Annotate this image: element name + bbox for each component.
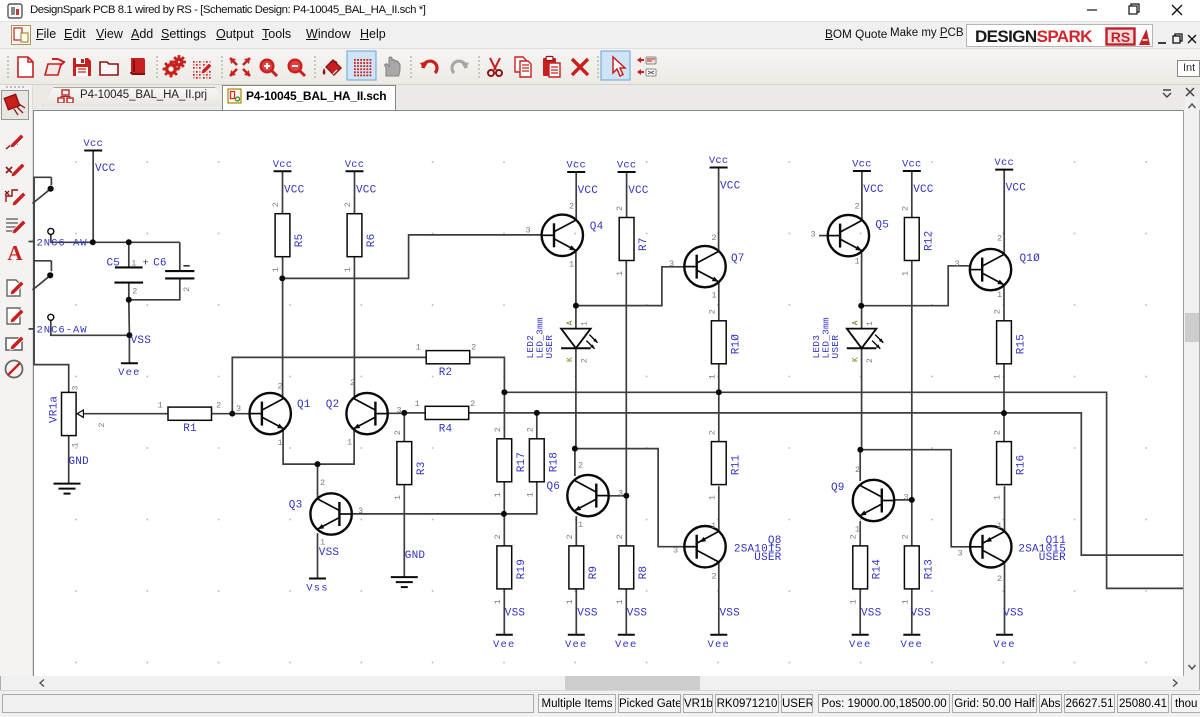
power Vee Q8: [710, 634, 727, 636]
node R15/R16: [1001, 410, 1007, 416]
transistor Q2: [346, 393, 387, 434]
wire LED3 node to Q9 collector: [859, 450, 861, 481]
wire Q7 emitter to R10: [718, 282, 720, 321]
node VSS input: [126, 332, 132, 338]
wire input bus: [50, 241, 180, 243]
power Vcc R5: [274, 170, 292, 172]
svg-text:A: A: [7, 241, 23, 265]
wire Q6 base: [608, 495, 626, 497]
MDI window buttons: [1155, 32, 1200, 46]
resistor R15: [997, 321, 1012, 364]
wire R6 bottom to Q2 collector: [353, 257, 355, 399]
node Q9 base: [909, 497, 915, 503]
node C5/C6 bottom: [126, 297, 132, 303]
wire R4 left: [404, 412, 425, 414]
wire LED2 cathode: [575, 348, 577, 448]
wire Q4 node to Q7 base: [576, 267, 685, 306]
wire R3 top: [403, 413, 405, 442]
wire R5 bottom to Q1 collector: [282, 257, 284, 399]
resistor R9: [569, 546, 584, 589]
transistor Q11 (2SA1015): [970, 526, 1011, 567]
wire input to VR1a: [34, 177, 69, 392]
wire R16 to Q11 emitter: [1004, 486, 1006, 531]
node Q6 base: [623, 493, 629, 499]
wire Q5 node to Q10 base: [862, 266, 972, 306]
node Q1 base: [229, 411, 235, 417]
wire edge stub J1: [29, 241, 35, 243]
wire to Vee symbol: [128, 335, 130, 363]
node LED2 cathode: [572, 446, 578, 452]
wire R8 to Vee: [625, 589, 627, 635]
power Vee R14: [852, 634, 869, 636]
wire R3 to GND: [403, 485, 405, 577]
resistor R6: [347, 214, 362, 257]
resistor R8: [619, 546, 634, 589]
bus A horizontal: [504, 392, 1183, 588]
bus B horizontal: [469, 413, 1183, 555]
wire VR1a wiper to R1: [83, 413, 168, 415]
horizontal scrollbar: [33, 676, 1184, 690]
wire R15 to R16: [1003, 364, 1005, 442]
svg-text:RS: RS: [1111, 29, 1130, 45]
resistor R3: [397, 442, 412, 485]
resistor R2: [426, 351, 470, 364]
wire Q2 base: [388, 412, 404, 414]
transistor Q9: [853, 480, 894, 521]
DesignSpark logo: [966, 24, 1153, 47]
node Q2 base/R3/R4: [401, 410, 407, 416]
wire R5 top: [282, 171, 284, 213]
power Vcc Q10: [995, 169, 1013, 171]
wire Q10 collector: [1003, 170, 1005, 255]
wire LED2 node to Q8 base: [575, 449, 685, 547]
tooltip Int: [1177, 60, 1200, 77]
power Vcc Q7: [710, 167, 728, 169]
wire Q4 collector: [575, 172, 577, 220]
node LED3 anode: [858, 303, 864, 309]
window minimize: [1080, 0, 1200, 22]
node R18 top: [534, 410, 540, 416]
wire R1 to Q1 base: [212, 413, 250, 415]
wire R14 to Vee: [859, 589, 861, 635]
power Vee R19: [496, 634, 513, 636]
connector J1 (2NC6-AW): [33, 176, 51, 178]
power Vee Q11: [996, 634, 1013, 636]
potentiometer VR1a: [62, 392, 77, 435]
wire Q9 emitter to R14: [859, 521, 861, 546]
wire Q6 emitter to R9: [575, 516, 577, 546]
title bar: [0, 0, 1200, 22]
wire R9 to Vee: [575, 589, 577, 635]
wire R11 to Q8 emitter: [718, 486, 720, 531]
wire C5 bottom lead: [128, 283, 130, 300]
power Vcc R6: [346, 170, 364, 172]
power Vee input: [121, 362, 138, 364]
ground VR1a: [54, 483, 81, 485]
wire R18 top: [536, 413, 538, 439]
resistor R7: [619, 218, 634, 261]
wire Q11 collector to Vee: [1004, 562, 1006, 635]
wire C6 bottom lead: [129, 278, 180, 299]
LED LED2: [561, 329, 591, 349]
power Vcc Q5: [853, 170, 871, 172]
capacitor C5: [115, 266, 143, 268]
transistor Q10: [970, 249, 1011, 290]
tab row: [0, 85, 1200, 110]
node tail Q1Q2: [315, 461, 321, 467]
LED LED3: [847, 329, 877, 349]
transistor Q8 (2SA1015): [684, 526, 725, 567]
resistor R4: [425, 406, 469, 419]
wire R19 top: [503, 514, 505, 546]
node LED2 anode: [573, 303, 579, 309]
wire R12 top: [911, 171, 913, 218]
node C5 top: [126, 239, 132, 245]
wire R12 to R13 vertical: [911, 261, 913, 546]
node LED3 cathode: [857, 447, 863, 453]
active tab .sch: [222, 85, 396, 110]
wire Q7 collector: [718, 168, 720, 252]
wire R19 to Vee: [503, 589, 505, 635]
wire R2 to bus A: [470, 357, 505, 392]
resistor R5: [275, 214, 290, 257]
resistor R13: [904, 546, 919, 589]
menu bar: [0, 22, 1200, 48]
schematic canvas: [33, 110, 1184, 676]
wire C5 top lead: [128, 242, 130, 267]
power Vcc Q4: [567, 171, 585, 173]
resistor R1: [168, 407, 212, 420]
wire Q4 emitter to LED2: [575, 251, 577, 329]
wire LED2 node to Q6 collector: [574, 449, 576, 476]
wire LED3 node to Q11 base: [860, 450, 971, 547]
wire LED3 cathode: [861, 348, 863, 449]
left toolbar: [0, 85, 33, 676]
resistor R17: [497, 439, 512, 482]
transistor Q1: [250, 393, 291, 434]
main toolbar: [0, 48, 1200, 85]
node R10/R11: [716, 389, 722, 395]
resistor R16: [997, 442, 1012, 485]
wire Q9 base: [894, 499, 912, 501]
capacitor C6 (polarized): [165, 270, 194, 272]
power Vee R8: [618, 634, 635, 636]
node R5/Q4: [279, 275, 285, 281]
power Vee R9: [568, 634, 585, 636]
power Vcc R7: [618, 171, 636, 173]
wire R17 bottom: [503, 482, 505, 514]
wire R17 top: [503, 392, 505, 439]
wire Q5 collector: [861, 171, 863, 220]
wire VCC rail to input node: [92, 151, 94, 243]
transistor Q3: [310, 493, 351, 534]
resistor R11: [711, 442, 726, 485]
power Vss Q3: [309, 578, 326, 580]
power Vcc input: [84, 150, 102, 152]
resistor R12: [904, 218, 919, 261]
wire Q8 collector to Vee: [718, 562, 720, 635]
wire tail node to Q3: [317, 464, 319, 499]
wire R7 to R8 vertical: [625, 261, 627, 546]
wire R10 to R11: [718, 364, 720, 442]
wire Q3 base to R17/R18: [352, 482, 537, 514]
wire Q5 emitter to LED3: [861, 251, 863, 329]
power Vcc R12: [903, 170, 921, 172]
wire connector J1 pin link: [50, 234, 52, 242]
tab area small buttons: [1160, 86, 1200, 100]
resistor R18: [529, 439, 544, 482]
status bar: [0, 690, 1200, 717]
wire R7 top: [626, 172, 628, 218]
transistor Q6: [567, 475, 608, 516]
transistor Q5: [828, 215, 869, 256]
wire Q1 emitter: [283, 429, 354, 465]
resistor R14: [853, 546, 868, 589]
node bus A left: [501, 389, 507, 395]
wire Q10 emitter to R15: [1003, 285, 1005, 321]
vertical scrollbar: [1185, 97, 1199, 676]
node VCC-input: [90, 239, 96, 245]
wire VR1a to GND: [68, 436, 70, 484]
wire R6 top: [354, 171, 356, 213]
transistor Q4: [542, 215, 583, 256]
wire feedback node to R2: [232, 357, 426, 413]
wire edge stub J2: [29, 328, 35, 330]
wire VSS node vertical: [128, 300, 131, 336]
wire R13 to Vee: [911, 589, 913, 635]
power Vee R13: [903, 634, 920, 636]
inactive tab .prj: [42, 87, 227, 106]
wire Q5 base stub: [819, 235, 828, 237]
wire C6 top lead: [179, 242, 181, 271]
wire R5 node to Q4 base: [282, 235, 542, 279]
connector J2 (2NC6-AW): [33, 260, 51, 262]
wire Q3 emitter to Vss: [317, 533, 319, 578]
wire connector J2 link: [51, 320, 130, 335]
resistor R19: [497, 546, 512, 589]
node R17/R19: [501, 511, 507, 517]
resistor R10: [711, 321, 726, 364]
transistor Q7: [684, 246, 725, 287]
ground R3: [391, 576, 418, 578]
